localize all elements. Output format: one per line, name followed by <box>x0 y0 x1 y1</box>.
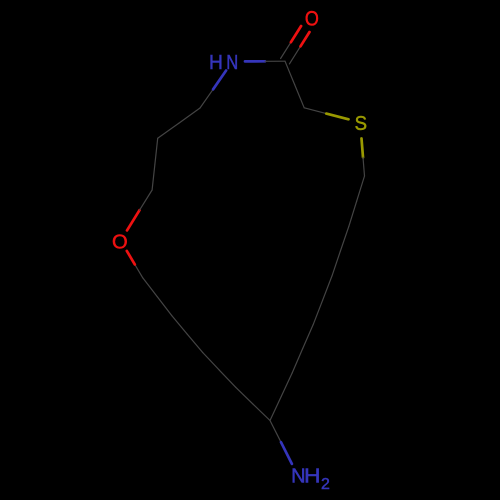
bond C10-N(amine) half-A <box>270 421 281 443</box>
bond C16-C17 half-A <box>152 164 155 190</box>
bond N1-C2 (amide N to carbonyl C) half-A <box>245 60 265 63</box>
bond C13-C14 half-B <box>143 278 158 297</box>
bond C14-O15 (ether) half-B <box>127 251 135 265</box>
bond C10-C11 half-A <box>253 404 270 421</box>
svg-text:N: N <box>226 52 238 74</box>
bond C12-C13 half-A <box>187 334 202 352</box>
svg-text:H: H <box>304 466 321 488</box>
bond C10-N(amine) half-B <box>281 442 292 464</box>
svg-text:O: O <box>112 232 128 254</box>
bond C2=O3 inner line C-half <box>289 46 300 64</box>
bond C11-C12 half-A <box>219 370 236 387</box>
bond C10-C11 half-B <box>236 387 253 404</box>
bond S4-C5 half-B <box>363 157 365 176</box>
bond S4-C5 half-A <box>362 139 364 158</box>
bond C17-C18 half-B <box>179 108 200 123</box>
bond C12-C13 half-B <box>172 316 187 334</box>
bond O15-C16 half-A <box>127 210 140 230</box>
bond C5-C6 half-B <box>349 201 357 226</box>
bond N1-C2 (amide N to carbonyl C) half-B <box>265 60 285 62</box>
svg-text:S: S <box>355 113 367 135</box>
bond C7-C8 half-B <box>313 300 323 325</box>
bond C8-C9 half-B <box>292 349 302 373</box>
bond C18-N1 half-A <box>200 89 213 108</box>
bond C7-C8 half-A <box>323 276 332 300</box>
bond C11-C12 half-B <box>203 353 219 370</box>
bond C9-C10 half-A <box>281 373 292 397</box>
svg-text:O: O <box>305 7 319 30</box>
bond C16-C17 half-B <box>155 138 158 164</box>
bond C13-C14 half-A <box>157 297 172 316</box>
bond C2-C3 half-B <box>295 85 305 108</box>
bond O15-C16 half-B <box>140 190 153 210</box>
bond C17-C18 half-A <box>158 123 179 138</box>
bond C6-C7 half-B <box>332 251 340 276</box>
bond C8-C9 half-A <box>303 325 314 349</box>
bond C3-S4 half-A <box>304 108 326 114</box>
bond C3-S4 half-B <box>326 114 348 120</box>
bond C2=O3 outer line C-half <box>281 42 291 58</box>
bond C18-N1 half-B <box>213 71 226 90</box>
bond C14-O15 (ether) half-A <box>135 264 143 278</box>
svg-text:H: H <box>209 52 223 74</box>
svg-text:2: 2 <box>321 476 330 493</box>
bond C5-C6 half-A <box>357 176 365 201</box>
bond C6-C7 half-A <box>340 226 349 251</box>
bond C2=O3 inner line O-half <box>301 32 310 46</box>
bond C9-C10 half-B <box>270 397 281 421</box>
bond C2-C3 half-A <box>285 61 295 84</box>
bond C2=O3 outer line O-half <box>291 26 301 42</box>
